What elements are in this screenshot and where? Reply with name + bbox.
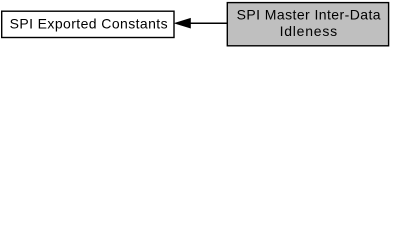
node: SPI Exported Constants box (2, 11, 174, 37)
background (0, 0, 393, 51)
arrowhead (175, 19, 190, 28)
svg-text:SPI Exported Constants: SPI Exported Constants (10, 15, 168, 31)
svg-text:SPI Master Inter-Data: SPI Master Inter-Data (237, 7, 381, 23)
node: SPI Master Inter-Data Idleness box (227, 3, 388, 46)
svg-text:Idleness: Idleness (280, 23, 338, 39)
edge shaft (190, 22, 228, 24)
